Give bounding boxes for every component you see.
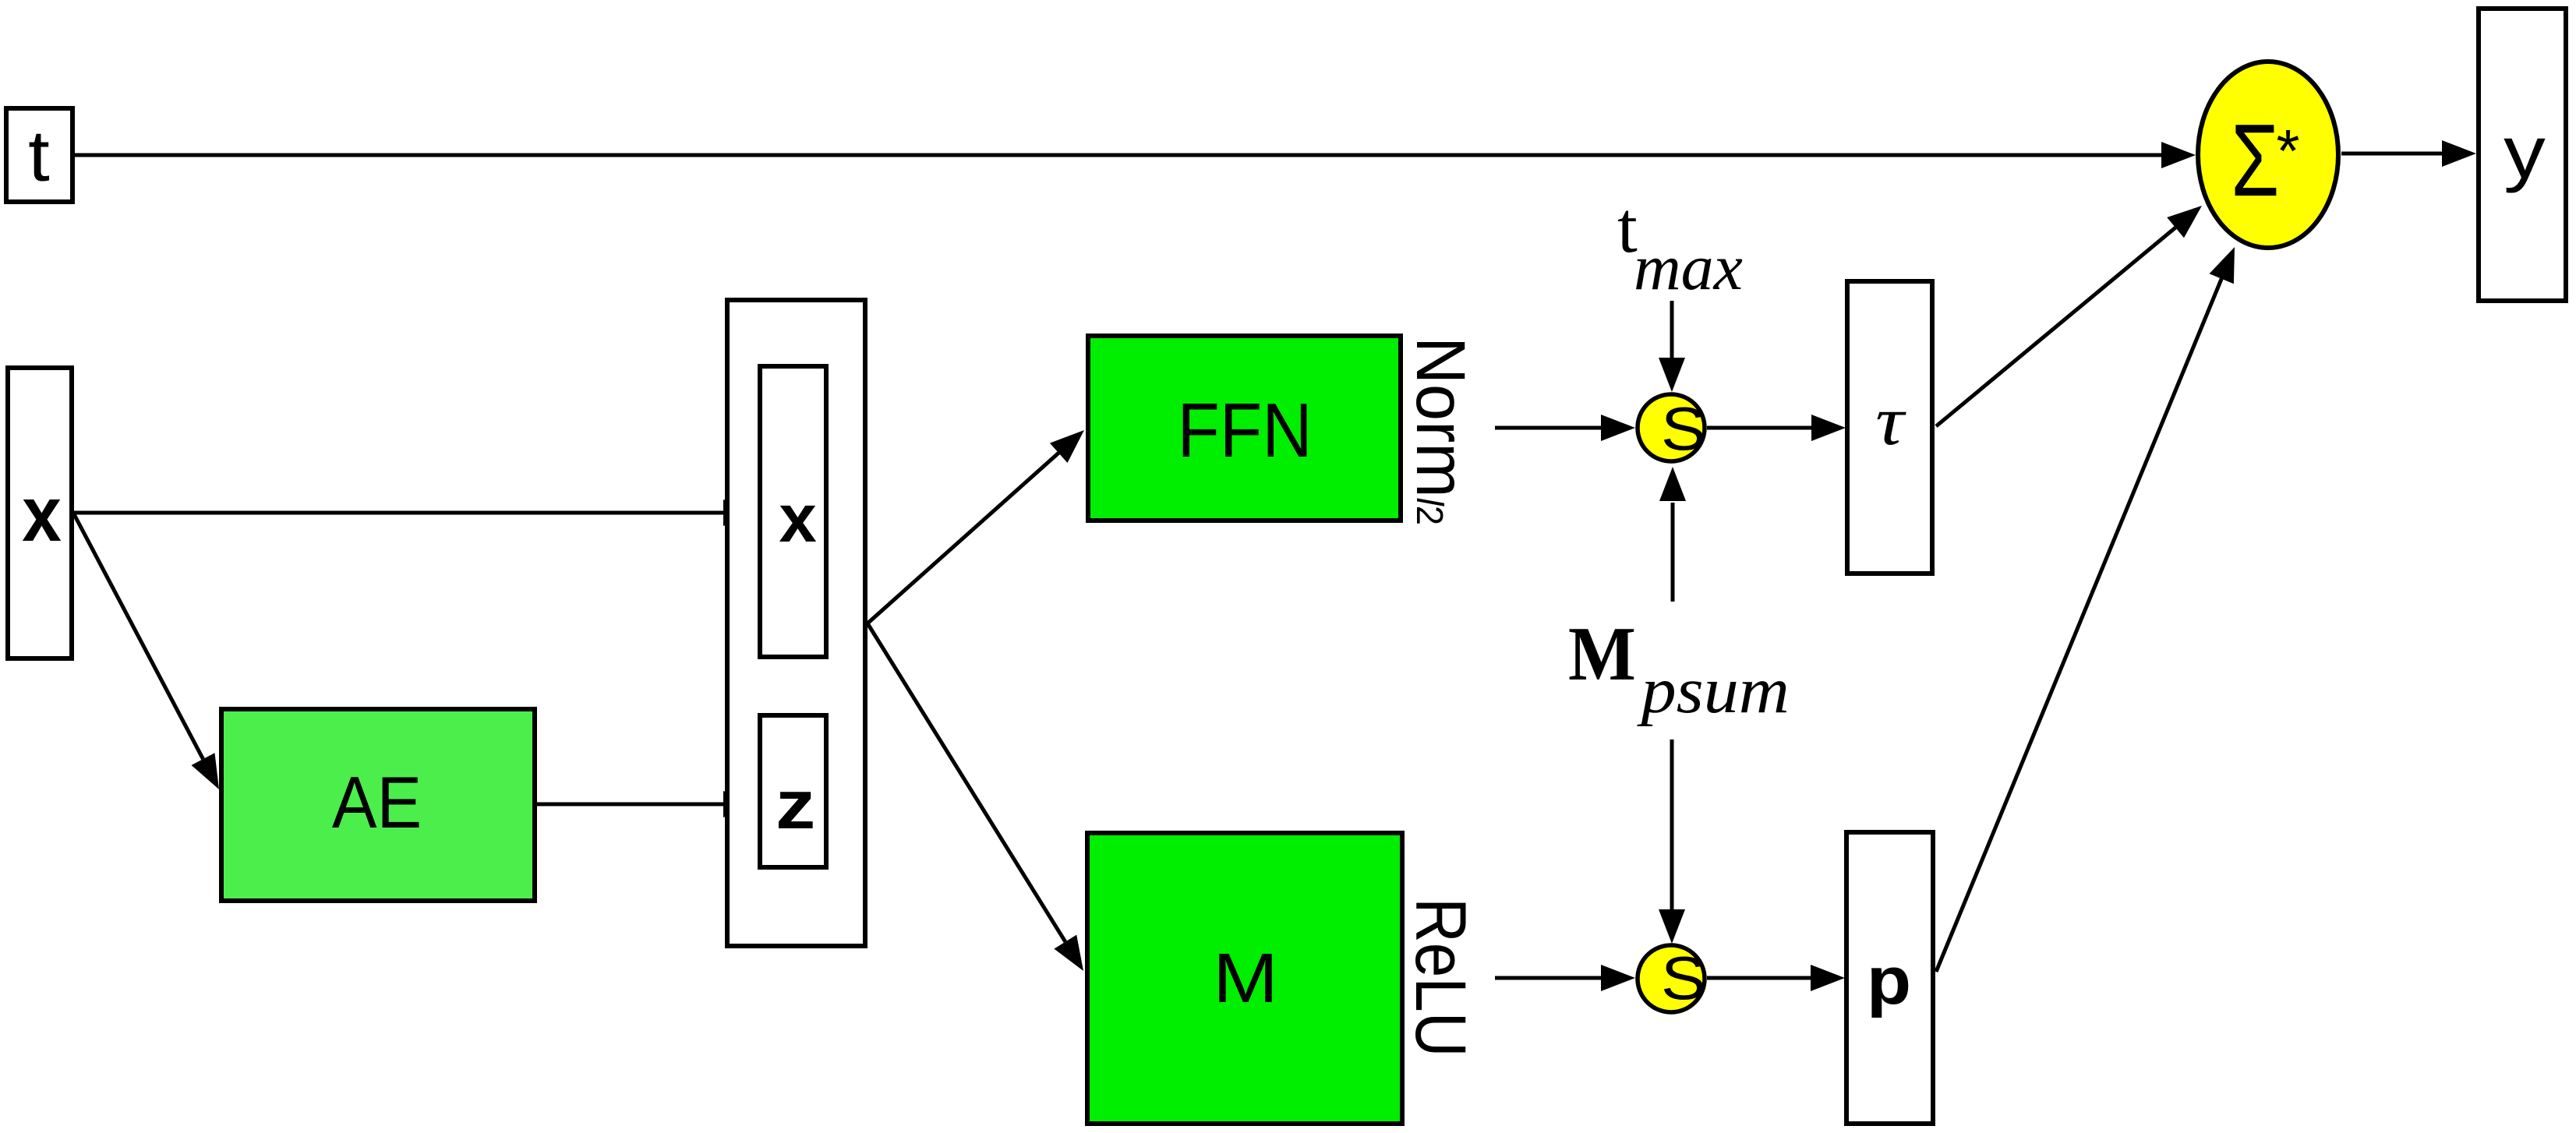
label t max: [1617, 188, 1743, 304]
box t: [6, 108, 72, 202]
box tau: [1847, 281, 1932, 574]
box x input: [8, 368, 72, 658]
svg-text:τ: τ: [1875, 381, 1906, 459]
wire M psum to S1: [1659, 467, 1686, 602]
wire M to S2: [1495, 965, 1635, 991]
box FFN: [1088, 336, 1401, 521]
svg-text:x: x: [22, 471, 62, 558]
wire FFN to S1: [1495, 415, 1635, 441]
wire sum to y: [2341, 140, 2476, 167]
svg-text:S: S: [1661, 394, 1706, 463]
wire AE to z: [537, 791, 758, 817]
svg-text:M: M: [1213, 940, 1278, 1018]
box concat container: [727, 300, 865, 946]
box concat z: [760, 715, 826, 867]
wire S1 to tau: [1707, 415, 1846, 441]
svg-text:psum: psum: [1636, 653, 1789, 726]
svg-text:Norml2: Norml2: [1402, 337, 1479, 525]
box p: [1846, 832, 1933, 1124]
svg-text:p: p: [1867, 944, 1911, 1019]
svg-text:z: z: [776, 767, 815, 843]
box M: [1087, 833, 1402, 1124]
wire concat to M: [868, 623, 1083, 971]
svg-text:Σ: Σ: [2231, 103, 2279, 217]
node sum: [2198, 62, 2338, 248]
box concat x: [760, 366, 826, 657]
svg-text:S: S: [1661, 944, 1706, 1012]
wire S2 to p: [1707, 965, 1845, 991]
svg-text:max: max: [1634, 231, 1743, 304]
wire concat to FFN: [868, 430, 1084, 623]
node S2: [1638, 944, 1706, 1012]
node S1: [1638, 394, 1706, 463]
wire tau to sum: [1936, 206, 2202, 426]
svg-text:ReLU: ReLU: [1401, 898, 1480, 1057]
svg-text:FFN: FFN: [1177, 387, 1312, 473]
wire x to AE: [74, 514, 219, 789]
wire t max to S1: [1659, 301, 1685, 392]
svg-text:AE: AE: [332, 762, 422, 844]
wire p to sum: [1936, 247, 2235, 972]
svg-text:x: x: [779, 481, 816, 556]
box AE: [221, 709, 535, 901]
wire M psum to S2: [1659, 739, 1685, 944]
label ReLU: [1401, 898, 1480, 1057]
wire x to concat x: [74, 499, 758, 526]
svg-text:y: y: [2504, 111, 2546, 194]
label M psum: [1568, 611, 1790, 726]
wire t to sum: [75, 142, 2196, 168]
label Norm l2: [1402, 337, 1479, 525]
svg-text:*: *: [2277, 118, 2300, 185]
svg-text:t: t: [28, 116, 50, 196]
svg-text:M: M: [1568, 611, 1636, 697]
box y: [2479, 9, 2566, 301]
